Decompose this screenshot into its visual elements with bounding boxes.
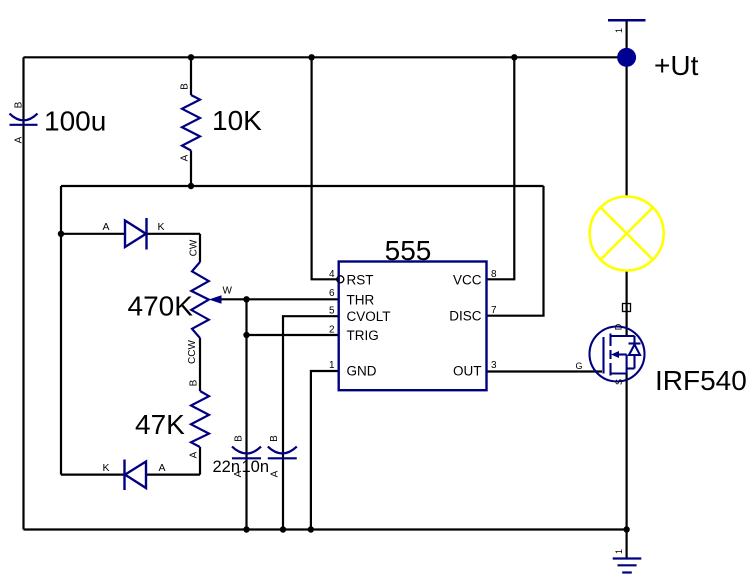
- wire bottom rail to ground: [625, 530, 627, 559]
- svg-text:8: 8: [491, 269, 497, 280]
- svg-text:1: 1: [614, 549, 624, 554]
- node +Ut dot: [617, 48, 636, 67]
- svg-text:A: A: [188, 451, 199, 458]
- svg-text:B: B: [269, 435, 280, 442]
- wire 47K to bottom diode: [199, 447, 201, 475]
- svg-text:THR: THR: [347, 292, 375, 307]
- svg-text:S: S: [614, 379, 624, 385]
- svg-text:10n: 10n: [242, 458, 270, 476]
- svg-text:4: 4: [329, 269, 335, 280]
- wire bottom rail: [24, 528, 627, 530]
- wire diode to pot: [199, 234, 201, 262]
- node bottom rail / ground: [623, 526, 629, 532]
- svg-text:K: K: [102, 462, 109, 474]
- svg-text:A: A: [158, 462, 165, 474]
- node left branch / diode row: [58, 231, 64, 237]
- potentiometer R2 470K: [191, 262, 209, 338]
- svg-text:W: W: [223, 286, 233, 297]
- svg-text:K: K: [157, 221, 164, 233]
- wire top diode row: [61, 233, 125, 235]
- pin 4 RST: [337, 276, 344, 283]
- wire bottom diode row: [61, 474, 125, 476]
- svg-text:7: 7: [491, 305, 497, 316]
- wire left branch vertical: [60, 186, 62, 475]
- wire RST from top rail: [312, 57, 337, 279]
- node wiper / 22n: [243, 296, 249, 302]
- svg-text:100u: 100u: [44, 106, 106, 137]
- resistor R3 47K: [191, 391, 209, 447]
- node second rail / 10K: [188, 183, 194, 189]
- node TRIG / 22n: [243, 332, 249, 338]
- capacitor C1 100u: [10, 114, 38, 125]
- node bottom rail / 22n: [243, 526, 249, 532]
- diode D2 bottom: [125, 460, 147, 491]
- svg-text:CVOLT: CVOLT: [347, 309, 391, 324]
- svg-text:RST: RST: [347, 272, 374, 287]
- wire TRIG: [247, 334, 339, 336]
- svg-text:555: 555: [385, 235, 432, 266]
- svg-text:B: B: [233, 435, 244, 442]
- wire top rail: [24, 56, 627, 58]
- svg-text:A: A: [180, 154, 191, 161]
- svg-text:G: G: [575, 361, 582, 371]
- svg-text:A: A: [102, 221, 109, 233]
- svg-text:A: A: [270, 470, 281, 477]
- wire DISC to second rail: [487, 186, 544, 316]
- wire CVOLT: [283, 316, 339, 529]
- svg-text:B: B: [188, 379, 199, 386]
- node top rail / VCC: [511, 54, 517, 60]
- svg-text:5: 5: [329, 306, 335, 317]
- wire second rail: [61, 185, 544, 187]
- ground: [613, 559, 642, 573]
- svg-text:DISC: DISC: [449, 309, 482, 324]
- wire left vertical: [22, 57, 24, 529]
- potentiometer wiper arrow: [209, 295, 222, 304]
- svg-text:10K: 10K: [212, 105, 262, 136]
- node bottom rail / 10n: [280, 526, 286, 532]
- capacitor C2 22n: [232, 447, 261, 459]
- svg-text:1: 1: [614, 28, 624, 33]
- transistor Q1 IRF540: [590, 327, 645, 382]
- svg-text:D: D: [613, 323, 623, 330]
- resistor R1 10K: [182, 95, 200, 151]
- wire 22n vertical: [245, 299, 247, 529]
- wire 10K bottom: [190, 151, 192, 187]
- svg-text:1: 1: [329, 360, 335, 371]
- wire GND to bottom rail: [311, 371, 339, 530]
- node top rail / RST: [308, 54, 314, 60]
- wire 10K top: [190, 57, 192, 95]
- svg-text:B: B: [13, 101, 24, 108]
- svg-text:+Ut: +Ut: [654, 50, 699, 81]
- svg-text:CCW: CCW: [187, 340, 198, 364]
- svg-text:CW: CW: [189, 239, 200, 256]
- wire pot to 47K: [199, 338, 201, 391]
- wire +Ut to lamp: [625, 20, 627, 196]
- diode D1 top: [125, 218, 147, 250]
- svg-text:3: 3: [491, 360, 497, 371]
- svg-text:VCC: VCC: [453, 272, 482, 287]
- power +Ut symbol: [608, 19, 646, 22]
- mosfet body arrow: [611, 351, 619, 358]
- op-amp U1 555 box: [339, 262, 487, 391]
- wire lamp to mosfet drain: [625, 271, 627, 337]
- wire mosfet source to bottom rail: [625, 374, 627, 530]
- svg-text:6: 6: [329, 288, 335, 299]
- svg-text:47K: 47K: [135, 409, 185, 440]
- node top rail / 10K: [188, 54, 194, 60]
- wire OUT to gate: [487, 370, 603, 372]
- wire wiper to THR: [221, 298, 339, 300]
- svg-text:B: B: [180, 83, 191, 90]
- svg-text:GND: GND: [347, 364, 377, 379]
- wire VCC to top rail: [487, 57, 515, 279]
- svg-text:OUT: OUT: [453, 364, 482, 379]
- svg-text:470K: 470K: [128, 291, 194, 322]
- svg-text:TRIG: TRIG: [347, 328, 379, 343]
- node bottom rail / GND: [308, 526, 314, 532]
- capacitor C3 10n: [268, 447, 297, 459]
- svg-text:A: A: [13, 136, 24, 143]
- lamp pin square marker: [623, 304, 631, 312]
- svg-text:IRF540: IRF540: [655, 365, 747, 396]
- svg-text:2: 2: [329, 325, 335, 336]
- lamp LAMP1: [590, 197, 664, 271]
